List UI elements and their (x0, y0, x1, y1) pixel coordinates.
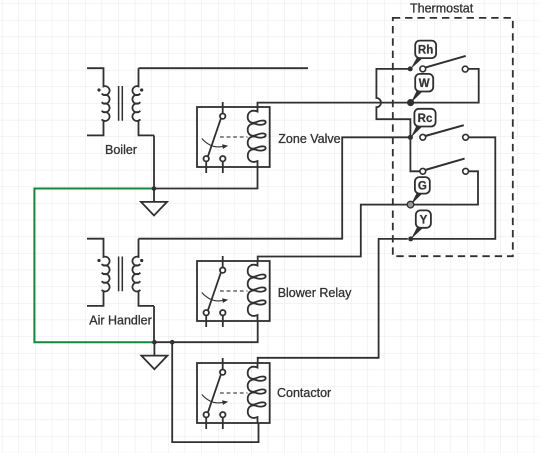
relay Blower Relay (197, 256, 270, 327)
svg-text:Thermostat: Thermostat (410, 2, 474, 16)
wire Rh switch loop (414, 69, 479, 103)
wire boiler common (153, 135, 155, 188)
terminal Y (408, 210, 431, 241)
junction contactor return (170, 340, 175, 345)
wire C common (green) (34, 189, 154, 343)
wire zone valve coil return (154, 167, 258, 189)
relay Zone Valve (197, 102, 270, 173)
terminal W (407, 74, 433, 106)
wire boiler R stub (139, 67, 309, 69)
ground boiler side (141, 189, 167, 216)
svg-text:W: W (419, 78, 430, 90)
ground air handler side (141, 342, 167, 369)
wire W to zone valve coil (258, 103, 411, 107)
switch Rh blade (425, 56, 466, 68)
svg-text:Y: Y (420, 214, 428, 226)
wire contactor coil return (172, 342, 258, 442)
junction air handler common (152, 340, 157, 345)
terminal Rc (408, 109, 436, 140)
wire Rh feed with hop over W (376, 69, 410, 135)
wire air handler common (153, 306, 155, 342)
switch Rc contacts (420, 134, 469, 140)
wire blower relay coil return (154, 321, 257, 342)
switch Rc blade (425, 125, 464, 136)
switch G contacts (420, 168, 469, 174)
wire G switch loop (414, 171, 478, 204)
svg-text:Boiler: Boiler (105, 143, 137, 157)
transformer Boiler (87, 68, 154, 135)
svg-text:Air Handler: Air Handler (89, 313, 152, 327)
wire Y to contactor coil (258, 239, 408, 363)
switch Rh contacts (420, 66, 468, 72)
thermostat dashed box (393, 18, 513, 256)
svg-text:Rc: Rc (418, 113, 433, 125)
svg-text:Blower Relay: Blower Relay (278, 286, 352, 300)
terminal Rh (408, 41, 436, 72)
svg-text:Rh: Rh (418, 45, 433, 57)
switch G blade (425, 159, 464, 170)
junction boiler common (152, 186, 157, 191)
svg-text:Contactor: Contactor (277, 386, 331, 400)
svg-text:Zone Valve: Zone Valve (278, 132, 340, 146)
wire Rc to air handler R (139, 137, 411, 238)
terminal G (407, 177, 430, 208)
svg-text:G: G (418, 181, 427, 193)
wire Rc to G switch (410, 137, 420, 171)
wire Rc-Y switch loop (413, 137, 495, 239)
relay Contactor (197, 358, 270, 429)
transformer Air Handler (87, 239, 154, 306)
wire G to blower relay coil (258, 205, 408, 261)
